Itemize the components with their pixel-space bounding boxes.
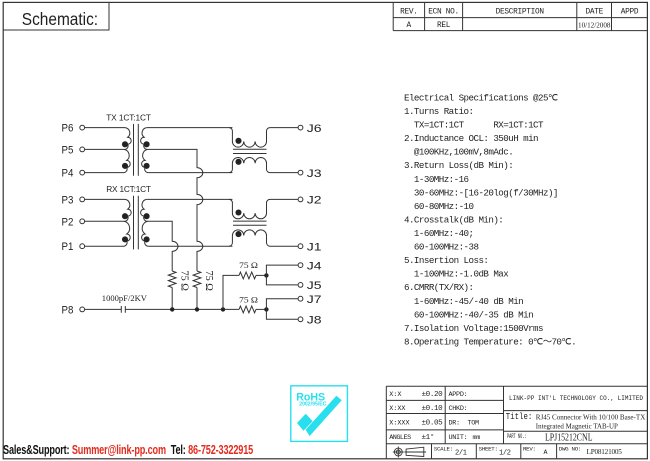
title block tolerance texts — [389, 391, 480, 442]
wire T2 secondary center tap to R1 with hop — [148, 221, 178, 271]
svg-text:2.Inductance OCL: 350uH min: 2.Inductance OCL: 350uH min — [404, 133, 538, 144]
svg-text:TOM: TOM — [468, 420, 480, 428]
svg-text:±1°: ±1° — [422, 433, 434, 442]
choke CM1 bottom winding — [229, 158, 298, 173]
polarity dot T2 primary lower — [122, 236, 128, 242]
svg-text:@100KHz,100mV,8mAdc.: @100KHz,100mV,8mAdc. — [404, 147, 513, 158]
svg-text:REV:: REV: — [523, 446, 536, 453]
transformer T1 primary upper winding — [124, 128, 131, 150]
svg-text:J4: J4 — [307, 260, 322, 272]
svg-text:DATE: DATE — [585, 8, 603, 16]
terminal P4 — [80, 170, 85, 175]
svg-text:REV.: REV. — [400, 8, 418, 16]
svg-text:7.Isolation Voltage:1500Vrms: 7.Isolation Voltage:1500Vrms — [404, 323, 543, 334]
terminal P8 — [80, 307, 85, 312]
svg-text:LPJ15212CNL: LPJ15212CNL — [545, 432, 593, 444]
svg-text:A: A — [407, 22, 412, 30]
wire R3 to J4/J5 node — [256, 274, 266, 276]
svg-text:REL: REL — [437, 22, 451, 30]
wire to J7 — [266, 299, 298, 310]
svg-text:2/1: 2/1 — [455, 449, 467, 457]
wire R2 to bus — [196, 288, 198, 310]
choke CM2 bottom winding — [229, 230, 298, 246]
title block bottom row texts — [434, 446, 622, 458]
svg-text:X:XXX: X:XXX — [389, 420, 409, 428]
svg-text:P4: P4 — [62, 168, 74, 180]
wire T1 secondary bottom to choke CM1 — [149, 172, 233, 174]
wire to J4 — [266, 265, 298, 275]
terminal J1 — [298, 244, 303, 249]
svg-text:UNIT:: UNIT: — [449, 434, 468, 442]
svg-text:1/2: 1/2 — [499, 449, 511, 457]
wire P6 to T1 primary — [85, 127, 125, 129]
svg-text:RJ45 Connector With 10/100 Bas: RJ45 Connector With 10/100 Base-TX — [536, 413, 646, 421]
svg-text:ANGLES: ANGLES — [389, 434, 411, 442]
choke CM1 top winding — [229, 128, 298, 147]
polarity dot CM2 top — [235, 209, 241, 215]
wire T2 secondary bottom to choke CM2 — [149, 245, 233, 247]
terminal J4 — [298, 263, 303, 268]
svg-text:DESCRIPTION: DESCRIPTION — [496, 8, 545, 16]
cone projection symbol — [404, 447, 426, 456]
wire T1 secondary center tap to R2 with hops — [148, 149, 203, 271]
svg-text:1-100MHz:-1.0dB Max: 1-100MHz:-1.0dB Max — [404, 269, 509, 280]
svg-text:Schematic:: Schematic: — [22, 9, 98, 29]
wire P3 to T2 primary — [85, 198, 125, 200]
resistor R2 75ohm — [193, 271, 201, 288]
revision table row A — [407, 20, 611, 30]
svg-text:2002/95/EC: 2002/95/EC — [299, 402, 327, 408]
svg-text:DWG NO:: DWG NO: — [559, 446, 581, 453]
terminal J2 — [298, 197, 303, 202]
wire to J8 — [266, 309, 298, 319]
wire bus branch up to R3 — [223, 275, 239, 309]
RoHS logo text — [296, 391, 327, 407]
polarity dot T2 secondary lower — [144, 236, 150, 242]
polarity dot T1 secondary upper — [144, 141, 150, 147]
resistor R4 75ohm — [239, 306, 256, 313]
svg-text:60-100MHz:-38: 60-100MHz:-38 — [404, 242, 478, 253]
svg-text:SCALE:: SCALE: — [434, 446, 453, 453]
svg-text:75 Ω: 75 Ω — [239, 294, 258, 304]
wire T2 secondary top to choke CM2 — [147, 198, 233, 200]
svg-text:LINK-PP INT'L TECHNOLOGY CO.,: LINK-PP INT'L TECHNOLOGY CO., LIMITED — [509, 395, 643, 403]
terminal J6 — [298, 125, 303, 130]
svg-text:60-80MHz:-10: 60-80MHz:-10 — [404, 201, 474, 212]
svg-text:P5: P5 — [62, 144, 74, 156]
svg-text:RX 1CT:1CT: RX 1CT:1CT — [106, 184, 151, 194]
svg-text:P2: P2 — [62, 216, 74, 228]
transformer T2 primary upper winding — [124, 199, 131, 221]
svg-text:X:XX: X:XX — [389, 405, 405, 413]
svg-text:J7: J7 — [307, 294, 322, 306]
terminal P1 — [80, 244, 85, 249]
title box Schematic — [3, 2, 109, 30]
polarity dot T1 primary upper — [122, 141, 128, 147]
svg-text:SHEET:: SHEET: — [479, 446, 498, 453]
svg-text:1-60MHz:-45/-40 dB Min: 1-60MHz:-45/-40 dB Min — [404, 296, 523, 307]
svg-text:±0.10: ±0.10 — [422, 405, 444, 413]
svg-text:ECN NO.: ECN NO. — [428, 8, 459, 16]
svg-text:TX=1CT:1CT RX=1CT:1CT: TX=1CT:1CT RX=1CT:1CT — [404, 120, 544, 131]
svg-text:APPD: APPD — [621, 8, 639, 16]
RoHS checkmark — [297, 396, 342, 436]
svg-text:J8: J8 — [307, 315, 322, 327]
svg-text:1-60MHz:-40;: 1-60MHz:-40; — [404, 228, 474, 239]
transformer T1 core — [134, 124, 139, 176]
svg-text:P6: P6 — [62, 123, 74, 135]
svg-text:75 Ω: 75 Ω — [203, 271, 215, 291]
svg-text:LP08121005: LP08121005 — [587, 448, 623, 456]
wire capacitor C1 to bus — [125, 308, 239, 310]
svg-text:Integrated Magnetic TAB-UP: Integrated Magnetic TAB-UP — [536, 423, 618, 431]
svg-text:±0.05: ±0.05 — [422, 420, 444, 428]
svg-text:X:X: X:X — [389, 391, 401, 399]
svg-text:P1: P1 — [62, 241, 74, 253]
svg-text:mm: mm — [473, 434, 481, 442]
wire R1 to bus — [171, 288, 173, 310]
svg-text:8.Operating Temperature: 0℃～70: 8.Operating Temperature: 0℃～70℃. — [404, 337, 576, 348]
svg-text:DR:: DR: — [449, 420, 460, 428]
svg-text:CHKD:: CHKD: — [449, 405, 468, 413]
polarity dot CM2 bottom — [235, 231, 241, 237]
wire P8 to capacitor C1 — [85, 308, 122, 310]
polarity dot T2 primary upper — [122, 213, 128, 219]
revision table grid — [393, 3, 647, 31]
terminal P3 — [80, 197, 85, 202]
transformer T2 core — [134, 196, 139, 250]
transformer T2 secondary upper winding — [141, 199, 148, 221]
title block grid — [386, 386, 647, 458]
svg-text:4.Crosstalk(dB Min):: 4.Crosstalk(dB Min): — [404, 214, 503, 225]
transformer T2 primary lower winding — [123, 221, 130, 246]
RoHS logo box — [291, 386, 348, 442]
terminal P5 — [80, 147, 85, 152]
wire P5 to T1 primary center tap — [85, 148, 124, 150]
polarity dot CM1 bottom — [235, 159, 241, 165]
svg-text:P8: P8 — [62, 304, 74, 316]
svg-text:J3: J3 — [307, 168, 322, 180]
junction on bus at J4/J5 branch — [221, 307, 225, 311]
svg-text:Electrical Specifications @25℃: Electrical Specifications @25℃ — [404, 92, 558, 103]
choke CM2 core — [233, 221, 267, 225]
svg-text:75 Ω: 75 Ω — [178, 271, 190, 291]
svg-text:3.Return Loss(dB Min):: 3.Return Loss(dB Min): — [404, 160, 513, 171]
terminal P6 — [80, 125, 85, 130]
svg-text:J2: J2 — [307, 195, 322, 207]
terminal J3 — [298, 170, 303, 175]
svg-text:A: A — [544, 449, 548, 456]
svg-text:APPD:: APPD: — [449, 391, 468, 399]
svg-text:5.Insertion Loss:: 5.Insertion Loss: — [404, 255, 488, 266]
transformer T2 secondary lower winding — [142, 221, 149, 246]
choke CM1 core — [233, 149, 267, 153]
terminal P2 — [80, 219, 85, 224]
svg-text:60-100MHz:-40/-35 dB Min: 60-100MHz:-40/-35 dB Min — [404, 309, 533, 320]
terminal J5 — [298, 283, 303, 288]
terminal J8 — [298, 317, 303, 322]
choke CM2 top winding — [229, 199, 298, 218]
wire to J5 — [266, 275, 298, 285]
polarity dot T1 secondary lower — [144, 163, 150, 169]
transformer T1 secondary lower winding — [142, 149, 149, 172]
svg-text:1-30MHz:-16: 1-30MHz:-16 — [404, 174, 469, 185]
transformer T1 primary lower winding — [123, 149, 130, 172]
svg-text:TX 1CT:1CT: TX 1CT:1CT — [106, 112, 151, 122]
svg-text:1.Turns Ratio:: 1.Turns Ratio: — [404, 106, 474, 117]
junction node J4/J5 — [264, 273, 268, 277]
junction on bus at R2 — [195, 307, 199, 311]
polarity dot T1 primary lower — [122, 163, 128, 169]
svg-text:±0.20: ±0.20 — [422, 391, 444, 399]
svg-text:6.CMRR(TX/RX):: 6.CMRR(TX/RX): — [404, 282, 474, 293]
svg-text:10/12/2008: 10/12/2008 — [578, 20, 611, 29]
junction on bus at R1 — [170, 307, 174, 311]
sales support contact line — [3, 443, 253, 457]
svg-text:J5: J5 — [307, 280, 322, 292]
svg-text:75 Ω: 75 Ω — [239, 260, 258, 270]
svg-text:30-60MHz:-[16-20log(f/30MHz)]: 30-60MHz:-[16-20log(f/30MHz)] — [404, 187, 558, 198]
note electrical specifications — [404, 92, 576, 347]
wire P4 to T1 primary — [85, 172, 123, 174]
resistor R3 75ohm — [239, 272, 256, 279]
wire P1 to T2 primary — [85, 245, 123, 247]
junction node J7/J8 — [264, 307, 268, 311]
resistor R1 75ohm — [168, 271, 176, 288]
terminal J7 — [298, 296, 303, 301]
third angle projection symbol — [393, 447, 404, 458]
polarity dot T2 secondary upper — [144, 213, 150, 219]
polarity dot CM1 top — [235, 138, 241, 144]
svg-text:J1: J1 — [307, 241, 322, 253]
capacitor C1 1000pF/2KV — [121, 306, 125, 313]
wire T1 secondary top to choke CM1 — [147, 127, 233, 129]
svg-text:PART NO.:: PART NO.: — [507, 433, 527, 440]
revision table header — [400, 8, 639, 16]
svg-text:Title:: Title: — [506, 411, 533, 422]
wire P2 to T2 primary center tap — [85, 220, 124, 222]
svg-text:P3: P3 — [62, 194, 74, 206]
svg-text:J6: J6 — [307, 123, 322, 135]
wire R4 to J7/J8 node — [256, 308, 266, 310]
transformer T1 secondary upper winding — [141, 128, 148, 150]
svg-text:1000pF/2KV: 1000pF/2KV — [102, 293, 148, 303]
